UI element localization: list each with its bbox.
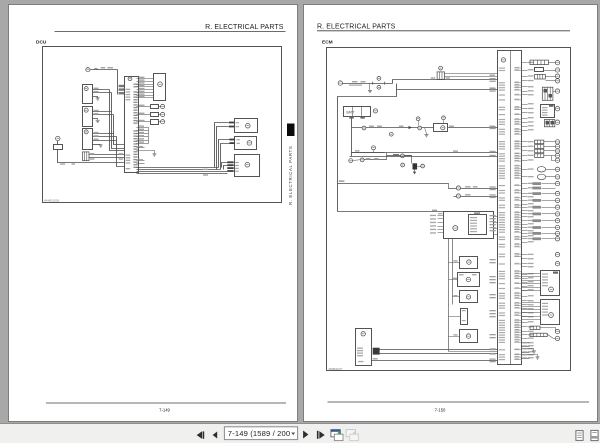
riser wires to M2 xyxy=(219,140,230,170)
sensor T4 xyxy=(461,309,468,325)
controller U10 xyxy=(444,212,494,239)
splice X2 xyxy=(373,77,385,90)
svg-text:R. ELECTRICAL PARTS: R. ELECTRICAL PARTS xyxy=(317,23,396,30)
relay K11 xyxy=(437,66,444,79)
connector CN30 pins xyxy=(357,348,380,357)
previous page button xyxy=(213,432,218,439)
wire pair to actuators xyxy=(137,168,221,170)
diagram label ECM xyxy=(322,40,333,46)
right pin stub wires xyxy=(522,63,528,359)
ground G11 xyxy=(425,128,429,137)
ground G1 xyxy=(93,97,100,101)
bus run B xyxy=(338,210,444,215)
connector CN4 xyxy=(83,152,90,161)
page title R. ELECTRICAL PARTS xyxy=(205,24,284,31)
actuator M3 pins xyxy=(227,161,238,172)
relay K1 wires xyxy=(93,90,112,93)
shield ground G4 xyxy=(137,151,157,157)
sensor feed row xyxy=(352,127,434,129)
ground G3 xyxy=(93,145,103,148)
wire label loop xyxy=(339,180,345,181)
controller U10 inner xyxy=(469,212,487,234)
switch SW1 wire xyxy=(58,150,125,163)
controller wires to strip xyxy=(494,217,498,235)
sensor T3 xyxy=(460,291,478,303)
bookmarks panel button xyxy=(591,430,598,440)
connector CN14 xyxy=(544,120,555,127)
sensor S1 xyxy=(151,104,165,108)
harness bus wires xyxy=(110,90,125,167)
right pin labels xyxy=(528,62,534,359)
splice bar SP1 xyxy=(530,60,556,65)
relay K2 wires xyxy=(93,112,114,115)
stub wires group 2 xyxy=(137,146,145,164)
ground arrow G12 xyxy=(413,170,416,175)
last page button xyxy=(317,431,325,439)
actuator M2 pins xyxy=(229,139,240,144)
feed branch up xyxy=(393,80,498,84)
actuator M2 xyxy=(235,137,257,150)
harness riser xyxy=(449,351,498,353)
pullup circles xyxy=(416,116,445,126)
wire label 5A xyxy=(101,67,113,68)
relay box K10 xyxy=(541,105,556,118)
injector J2 pins xyxy=(522,303,541,320)
terminal block group xyxy=(533,182,556,240)
sensor chain bus xyxy=(449,239,453,352)
splice circle S12 xyxy=(389,132,393,136)
resistor R1 xyxy=(413,163,425,169)
wires to M3 xyxy=(137,163,228,176)
battery terminals xyxy=(349,117,365,119)
wire label K2a xyxy=(94,110,99,115)
ring terminal group xyxy=(555,61,559,341)
control unit U1 wires xyxy=(137,79,154,98)
svg-text:7-150: 7-150 xyxy=(435,408,446,413)
sensor row 2b xyxy=(349,153,387,163)
page number field xyxy=(224,427,297,440)
wire to connector xyxy=(117,70,119,95)
sensor row 2 xyxy=(352,146,385,153)
diode arrow xyxy=(409,126,412,129)
wire label CN4a xyxy=(90,153,123,160)
relay K1 xyxy=(83,85,93,104)
control unit U1 xyxy=(154,74,166,101)
battery down wire xyxy=(351,119,353,157)
page header rule xyxy=(317,30,570,32)
relay K3 xyxy=(83,129,93,150)
chapter tab xyxy=(287,124,295,137)
injector J1 xyxy=(541,271,560,296)
DCU connector X1 pin labels xyxy=(133,84,137,169)
feed branch down xyxy=(397,84,498,90)
ground G15 xyxy=(530,349,540,360)
long wire row xyxy=(352,150,498,152)
first page button xyxy=(197,431,205,438)
svg-text:ECM: ECM xyxy=(322,40,333,46)
svg-text:7-149 (1589 / 200: 7-149 (1589 / 200 xyxy=(228,429,291,438)
row B wire xyxy=(454,194,498,198)
wire labels U1 xyxy=(139,77,145,98)
wire to strip 2 xyxy=(350,156,498,158)
battery circle xyxy=(373,109,377,113)
splice circle row A xyxy=(456,186,477,190)
injector J1 pins xyxy=(522,274,541,291)
inline connector CN5 xyxy=(119,85,124,95)
toolbar xyxy=(0,423,600,443)
connector CN20 wires xyxy=(448,126,498,128)
page header rule xyxy=(55,30,286,32)
ground G10 xyxy=(368,84,372,93)
sensor T2 xyxy=(458,273,480,287)
svg-text:R. ELECTRICAL PARTS: R. ELECTRICAL PARTS xyxy=(205,24,284,31)
connector group CN15 xyxy=(535,140,556,160)
sensor S3 wire xyxy=(137,120,161,122)
wire label K1a xyxy=(94,88,99,93)
shield drain wires xyxy=(522,342,530,358)
grommet seals xyxy=(537,167,555,180)
splice S11 xyxy=(418,126,422,130)
connector CN12 xyxy=(535,74,556,80)
next page button xyxy=(303,431,308,439)
sensor mid row xyxy=(387,154,412,164)
connector CN4 wires xyxy=(89,155,125,158)
power source terminal xyxy=(86,68,90,72)
sensor T1 xyxy=(460,257,478,269)
CN30 harness wires xyxy=(380,350,498,354)
svg-text:38480DC07: 38480DC07 xyxy=(329,367,343,371)
ECM connector X10 xyxy=(498,51,522,366)
page title R. ELECTRICAL PARTS xyxy=(317,23,396,30)
svg-text:DCU: DCU xyxy=(36,40,47,46)
svg-text:WH4001D1B: WH4001D1B xyxy=(44,199,59,203)
splice circle S13 xyxy=(401,163,405,167)
sensor chain stubs xyxy=(449,260,461,336)
stub wires group xyxy=(137,125,149,143)
splice S10 xyxy=(362,126,366,130)
connector CN13 xyxy=(542,87,555,100)
DCU diagram frame xyxy=(43,47,282,203)
row labels xyxy=(369,126,404,127)
page number 7-149 xyxy=(159,408,170,413)
footer rule xyxy=(328,401,590,403)
thumbnails panel button xyxy=(576,431,583,441)
ECM connector X10 pin labels xyxy=(499,68,505,361)
actuator M1 pins xyxy=(229,122,239,128)
ground G2 xyxy=(93,119,100,123)
riser wires to M1 xyxy=(215,123,229,170)
svg-text:7-149: 7-149 xyxy=(159,408,170,413)
loop wire xyxy=(338,90,397,212)
bus run A xyxy=(338,181,498,189)
sensor S2 xyxy=(151,112,165,116)
diagram label DCU xyxy=(36,40,47,46)
drawing number WH4001D1B xyxy=(44,199,59,203)
relay K11 labels xyxy=(431,75,495,89)
actuator M3 xyxy=(235,155,260,177)
wire labels feed xyxy=(349,81,366,86)
controller U10 left pins xyxy=(430,215,444,234)
chapter tab label xyxy=(288,146,293,205)
svg-text:R. ELECTRICAL PARTS: R. ELECTRICAL PARTS xyxy=(288,146,293,205)
DCU connector X1 xyxy=(125,77,139,173)
relay K2 xyxy=(83,107,93,127)
drawing number 38480DC07 xyxy=(329,367,343,371)
switch SW1 xyxy=(54,136,63,149)
main feed wire xyxy=(343,83,393,85)
ECM diagram frame xyxy=(327,48,571,371)
connector CN16 xyxy=(530,326,556,338)
left page 7-149 xyxy=(8,4,298,422)
relay K11 wires xyxy=(445,74,498,77)
svg-text:BATT: BATT xyxy=(347,110,355,114)
relay K3 wires xyxy=(93,134,117,141)
fuse F1 xyxy=(91,68,118,69)
next view button disabled xyxy=(346,430,358,441)
sensor T5 xyxy=(460,330,478,343)
sensor S1 wire xyxy=(137,105,161,107)
right page 7-150 xyxy=(303,4,598,422)
previous view button xyxy=(331,430,343,441)
footer rule xyxy=(46,402,286,404)
injector J2 xyxy=(541,300,560,325)
strip left labels xyxy=(490,78,496,362)
connector CN11 xyxy=(535,68,556,72)
ECM connector X10 pin ticks xyxy=(514,67,521,360)
sensor S3 xyxy=(151,120,165,125)
DCU connector X1 left labels xyxy=(126,89,131,170)
battery terminal B1 xyxy=(338,81,342,85)
CN30 single wire xyxy=(358,358,498,362)
connector CN20 xyxy=(434,124,448,132)
wire label K3a xyxy=(94,132,99,140)
page number 7-150 xyxy=(435,408,446,413)
wire label SW1 xyxy=(60,163,75,164)
connector CN30 xyxy=(356,329,372,366)
sensor S2 wire xyxy=(137,113,161,115)
battery BATT xyxy=(344,107,371,117)
actuator M1 xyxy=(235,119,258,133)
